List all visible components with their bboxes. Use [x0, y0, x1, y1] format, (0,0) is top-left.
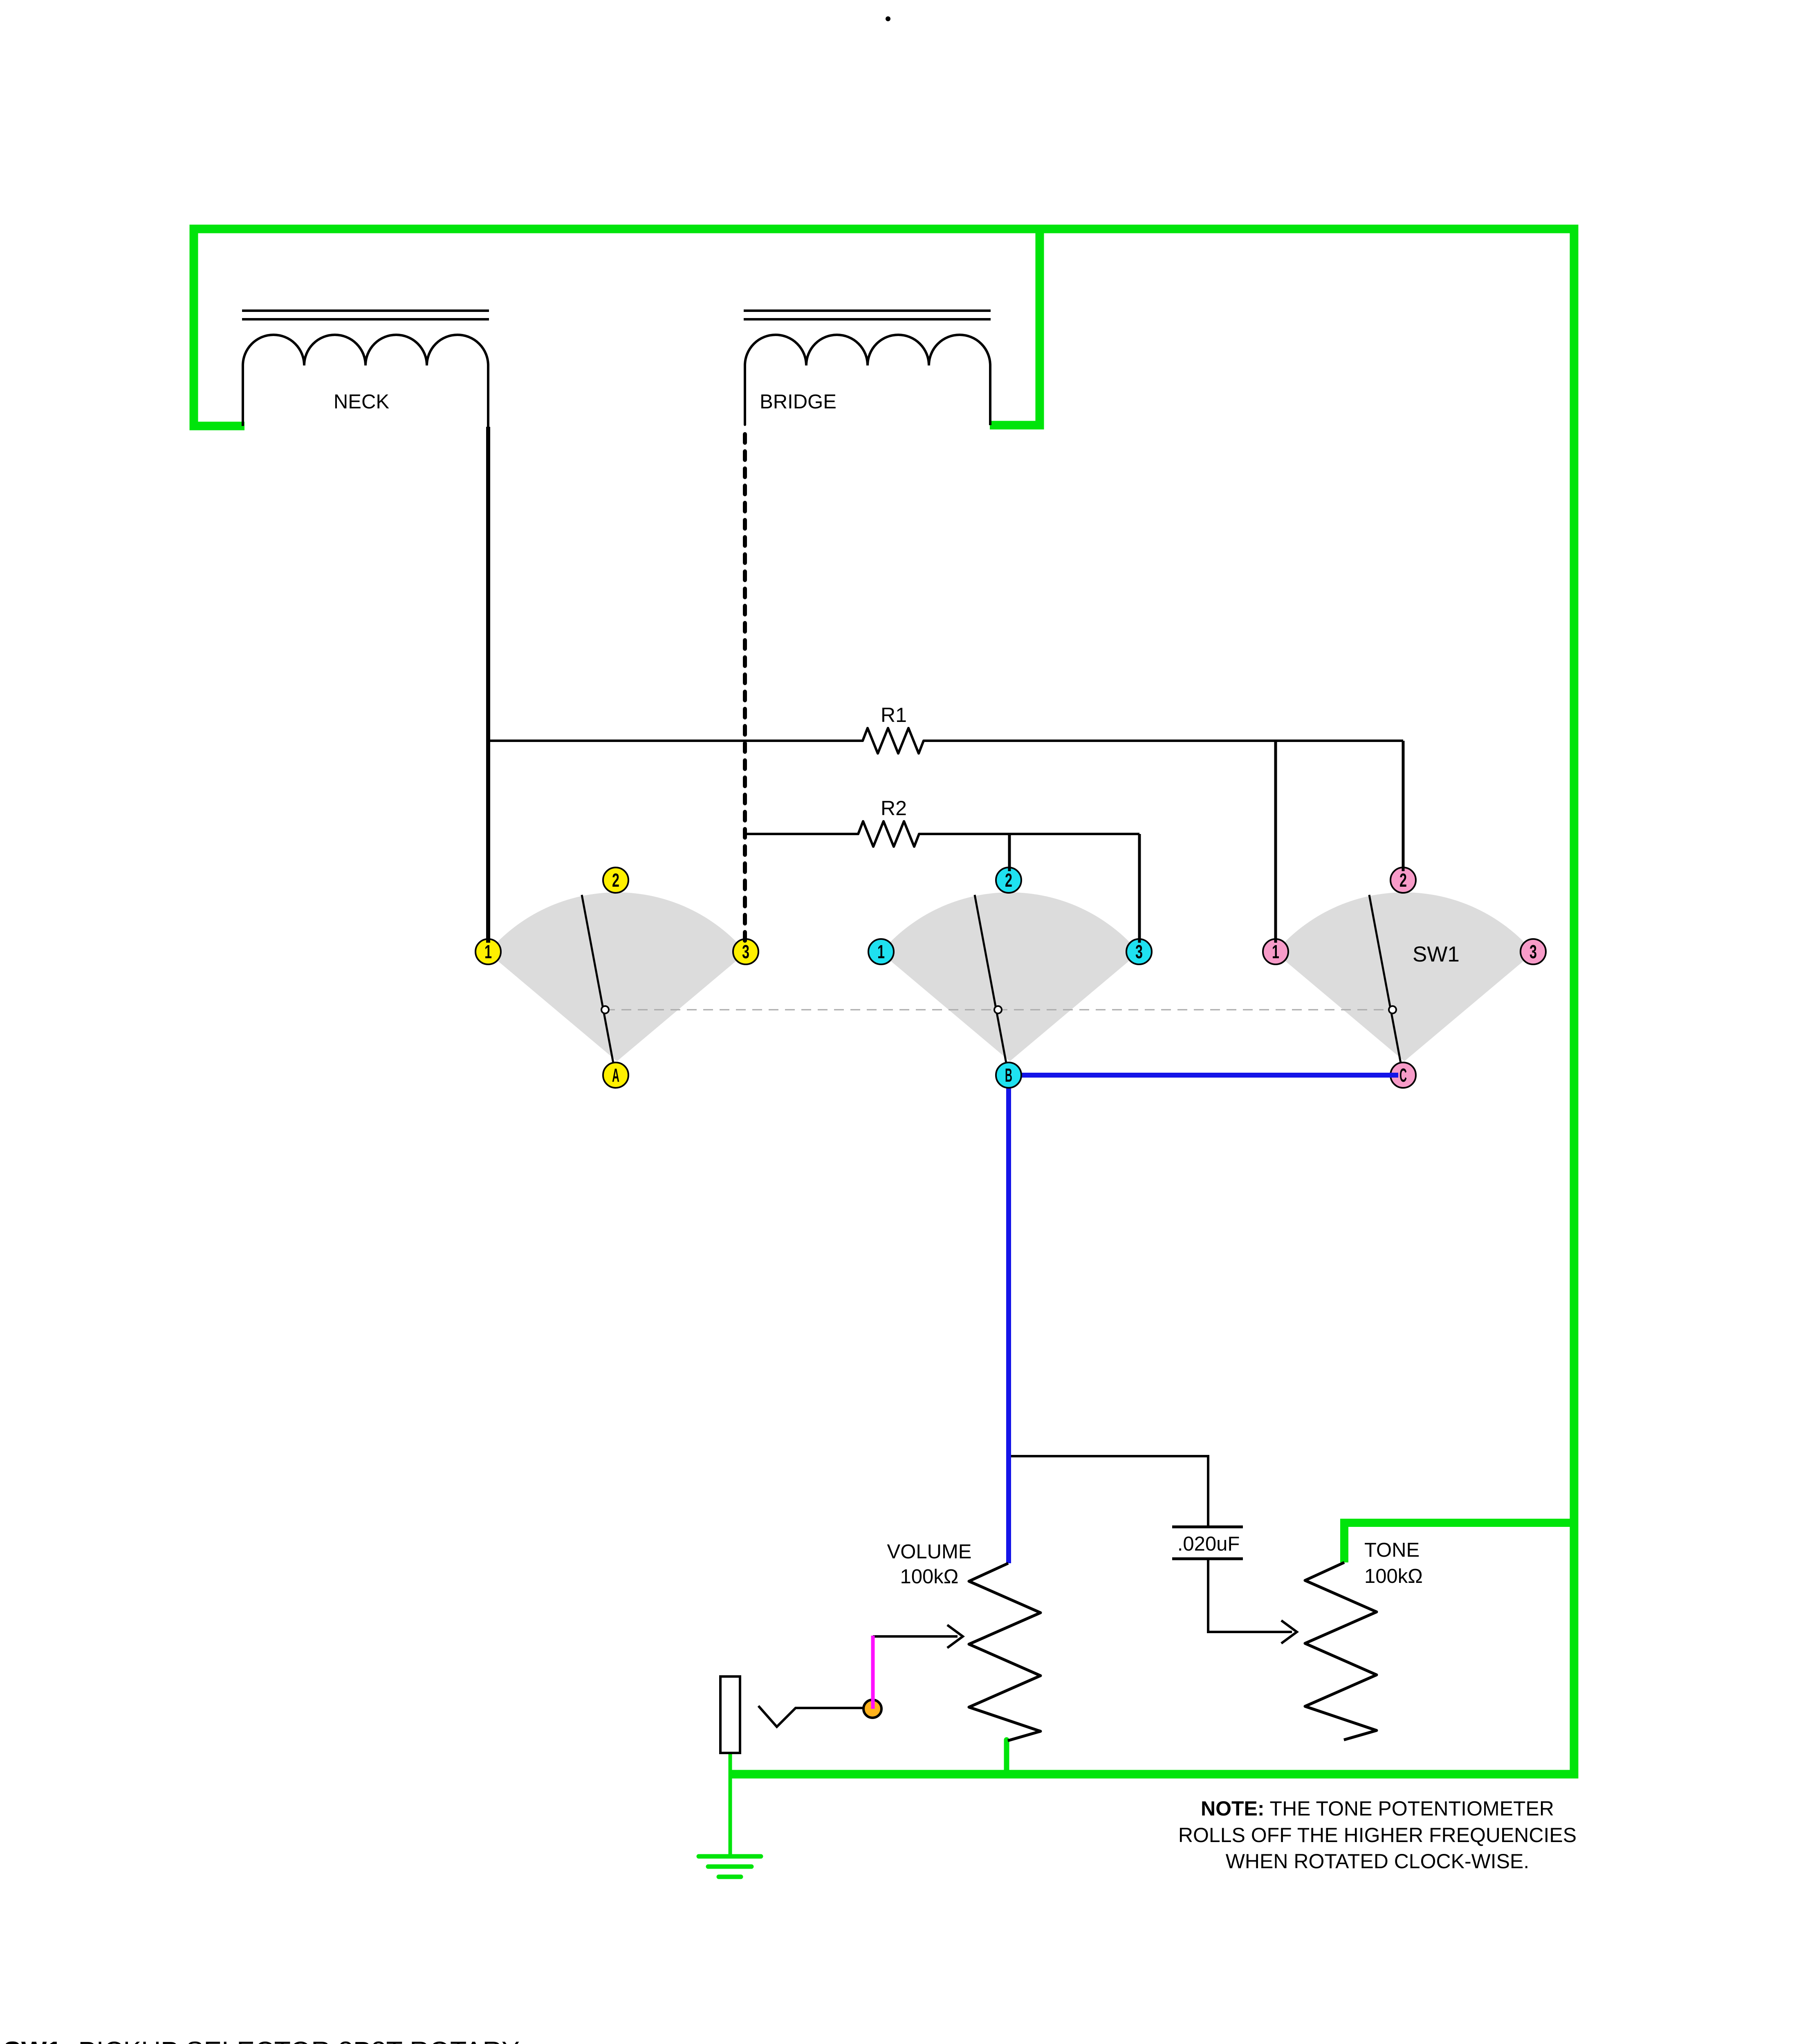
stray dot: [886, 16, 890, 21]
svg-text:1: 1: [484, 941, 492, 962]
ground bus green loop (top bus, left drop, right drop, bottom bus): [194, 229, 1574, 1774]
svg-text:R2: R2: [881, 797, 907, 820]
pickup NECK coil: [243, 335, 488, 365]
ground symbol: [699, 1856, 761, 1877]
terminal cyan B: [996, 1062, 1021, 1088]
wire neck pickup to yellow 1 (thick): [486, 427, 490, 943]
svg-text:A: A: [612, 1065, 619, 1086]
svg-text:2: 2: [1399, 870, 1407, 891]
switch wiper B: [975, 895, 1009, 1076]
svg-text:WHEN ROTATED CLOCK-WISE.: WHEN ROTATED CLOCK-WISE.: [1226, 1850, 1529, 1873]
pivot C: [1389, 1006, 1396, 1013]
terminal yellow 2: [603, 867, 628, 893]
svg-text:C: C: [1399, 1065, 1407, 1086]
wire green tone pot feed: [1344, 1523, 1574, 1562]
terminal pink 1: [1263, 939, 1288, 964]
wire R1 tee to pink 1: [1274, 741, 1277, 943]
svg-text:3: 3: [742, 941, 749, 962]
terminal pink 3: [1520, 939, 1546, 964]
svg-text:VOLUME: VOLUME: [887, 1541, 972, 1563]
dashed pivot line: [605, 1009, 1393, 1011]
capacitor C1 plates: [1172, 1527, 1243, 1559]
terminal yellow 1: [475, 939, 501, 964]
wire green volume ground stub: [1004, 1740, 1009, 1774]
svg-text:100kΩ: 100kΩ: [900, 1566, 959, 1588]
switch wiper C: [1369, 895, 1403, 1076]
svg-text:SW1: PICKUP SELECTOR 3P3T ROTA: SW1: PICKUP SELECTOR 3P3T ROTARY: [3, 2036, 520, 2044]
wire bridge pickup to yellow 3 (dashed): [743, 434, 747, 943]
wire green bridge hook: [990, 231, 1040, 425]
switch wiper A: [582, 895, 616, 1076]
tone wiper arrowhead: [1281, 1620, 1297, 1643]
terminal yellow 3: [733, 939, 758, 964]
wire R2 tee to cyan 2: [1008, 834, 1011, 871]
terminal yellow A: [603, 1062, 628, 1088]
svg-text:TONE: TONE: [1364, 1539, 1420, 1561]
wire neck right lead thin: [487, 365, 489, 428]
svg-text:BRIDGE: BRIDGE: [760, 391, 836, 413]
wire blue tap to capacitor: [1011, 1456, 1208, 1526]
jack J1 body: [720, 1676, 740, 1753]
switch SW1 wafer B fan: [881, 892, 1139, 1061]
svg-text:3: 3: [1135, 941, 1143, 962]
terminal cyan 1: [868, 939, 894, 964]
terminal pink C: [1390, 1062, 1416, 1088]
wire bridge left lead thin: [744, 365, 746, 425]
switch SW1 wafer C fan: [1275, 892, 1534, 1061]
svg-text:1: 1: [1272, 941, 1279, 962]
svg-text:2: 2: [1005, 870, 1012, 891]
wire green jack sleeve to ground: [729, 1753, 732, 1856]
pickup BRIDGE core: [744, 311, 991, 319]
svg-text:ROLLS OFF THE HIGHER FREQUENCI: ROLLS OFF THE HIGHER FREQUENCIES: [1178, 1824, 1577, 1847]
terminal cyan 3: [1126, 939, 1152, 964]
svg-text:SW1: SW1: [1413, 942, 1460, 966]
pivot B: [994, 1006, 1002, 1013]
svg-text:R1: R1: [881, 704, 907, 726]
jack tip contact: [758, 1706, 871, 1727]
pickup NECK core: [242, 311, 489, 319]
svg-text:100kΩ: 100kΩ: [1364, 1565, 1423, 1587]
switch SW1 wafer A fan: [488, 892, 746, 1061]
wire R1 right end to pink 2: [1402, 741, 1405, 871]
node hot junction (orange): [863, 1700, 881, 1718]
wire capacitor to tone wiper: [1208, 1560, 1292, 1632]
wire R2 right end to cyan 3: [1138, 834, 1141, 943]
pivot A: [601, 1006, 609, 1013]
resistor R1: [488, 728, 1403, 753]
svg-text:B: B: [1005, 1065, 1012, 1086]
wire blue B to C and down to volume: [1009, 1075, 1398, 1563]
wire neck left lead: [242, 365, 244, 426]
svg-text:1: 1: [877, 941, 885, 962]
terminal pink 2: [1390, 867, 1416, 893]
potentiometer TONE 100k: [1305, 1562, 1377, 1740]
svg-text:NOTE: THE TONE POTENTIOMETER: NOTE: THE TONE POTENTIOMETER: [1201, 1797, 1554, 1820]
wire volume wiper arrow: [873, 1635, 958, 1638]
wire bridge right lead thin: [989, 365, 991, 425]
volume wiper arrowhead: [947, 1625, 963, 1648]
terminal cyan 2: [996, 867, 1021, 893]
wire magenta jack hot to volume wiper: [871, 1636, 875, 1709]
svg-text:NECK: NECK: [334, 391, 389, 413]
svg-text:3: 3: [1529, 941, 1537, 962]
resistor R2: [745, 821, 1139, 847]
svg-text:.020uF: .020uF: [1177, 1533, 1240, 1555]
pickup BRIDGE coil: [745, 335, 990, 365]
potentiometer VOLUME 100k: [969, 1563, 1041, 1741]
svg-text:2: 2: [612, 870, 619, 891]
